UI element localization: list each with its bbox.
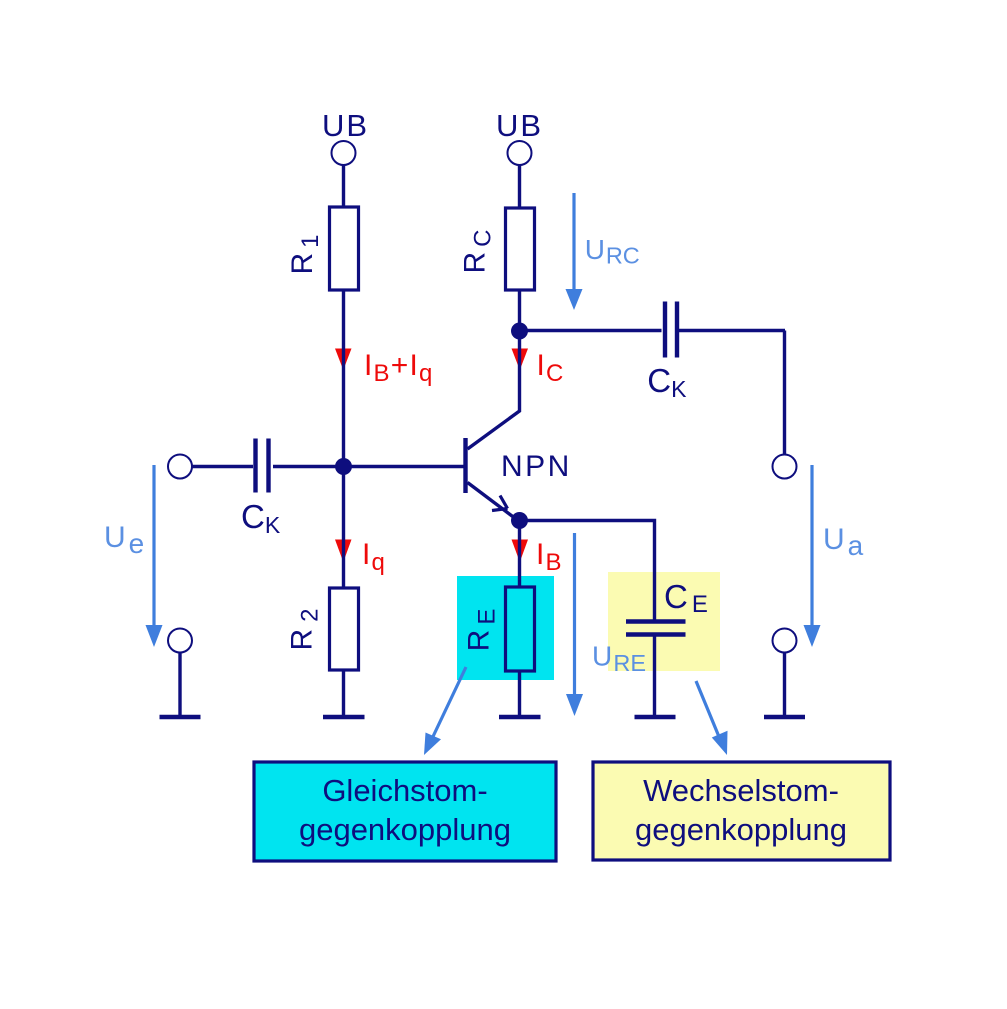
svg-text:Wechselstom-: Wechselstom-	[643, 773, 839, 808]
svg-text:UB: UB	[496, 108, 543, 143]
svg-text:NPN: NPN	[501, 450, 572, 483]
svg-text:Gleichstom-: Gleichstom-	[322, 773, 487, 808]
svg-text:gegenkopplung: gegenkopplung	[299, 812, 511, 847]
svg-text:gegenkopplung: gegenkopplung	[635, 812, 847, 847]
svg-text:UB: UB	[322, 108, 369, 143]
